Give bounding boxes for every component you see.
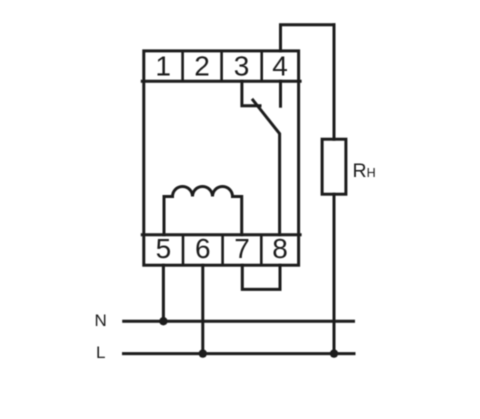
wire terminal 6 down to L	[201, 265, 204, 353]
divider pins 2|3	[220, 51, 223, 81]
divider pins 3|4	[260, 51, 263, 81]
divider pins 1|2	[181, 51, 184, 81]
net L line	[124, 352, 355, 355]
divider pins 5|6	[182, 235, 185, 265]
wire resistor bottom to L line	[333, 194, 336, 353]
wire top corner down to resistor	[333, 25, 336, 140]
wire terminal 3 lead with fixed contact bend	[242, 81, 260, 106]
svg-text:2: 2	[194, 51, 210, 82]
svg-text:3: 3	[234, 51, 250, 82]
jumper wire terminals 7-8	[242, 265, 280, 289]
bottom terminal strip top edge	[142, 233, 300, 236]
svg-text:1: 1	[155, 51, 171, 82]
junction dot N / terminal 5	[159, 317, 167, 325]
svg-text:8: 8	[272, 233, 288, 264]
top terminal strip bottom edge	[142, 80, 300, 83]
svg-text:6: 6	[195, 233, 211, 264]
svg-text:RH: RH	[353, 160, 376, 182]
divider pins 6|7	[221, 235, 224, 265]
relay module body outline	[144, 51, 299, 265]
junction dot L / resistor	[330, 349, 338, 357]
svg-text:5: 5	[156, 233, 172, 264]
relay coil between terminals 5 and 7	[164, 187, 242, 235]
svg-text:4: 4	[272, 51, 288, 82]
wire terminal 4 stub (NO contact)	[279, 81, 282, 106]
resistor RH (load)	[322, 139, 346, 194]
wire terminal 5 down to N	[162, 265, 165, 321]
svg-text:7: 7	[234, 233, 250, 264]
wire terminal 4 to top corner	[281, 25, 335, 51]
junction dot L / terminal 6	[199, 349, 207, 357]
svg-text:L: L	[96, 343, 105, 362]
net N line	[124, 320, 354, 323]
divider pins 7|8	[260, 235, 263, 265]
svg-text:N: N	[95, 311, 107, 330]
relay contact blade from terminal 8	[253, 100, 280, 235]
